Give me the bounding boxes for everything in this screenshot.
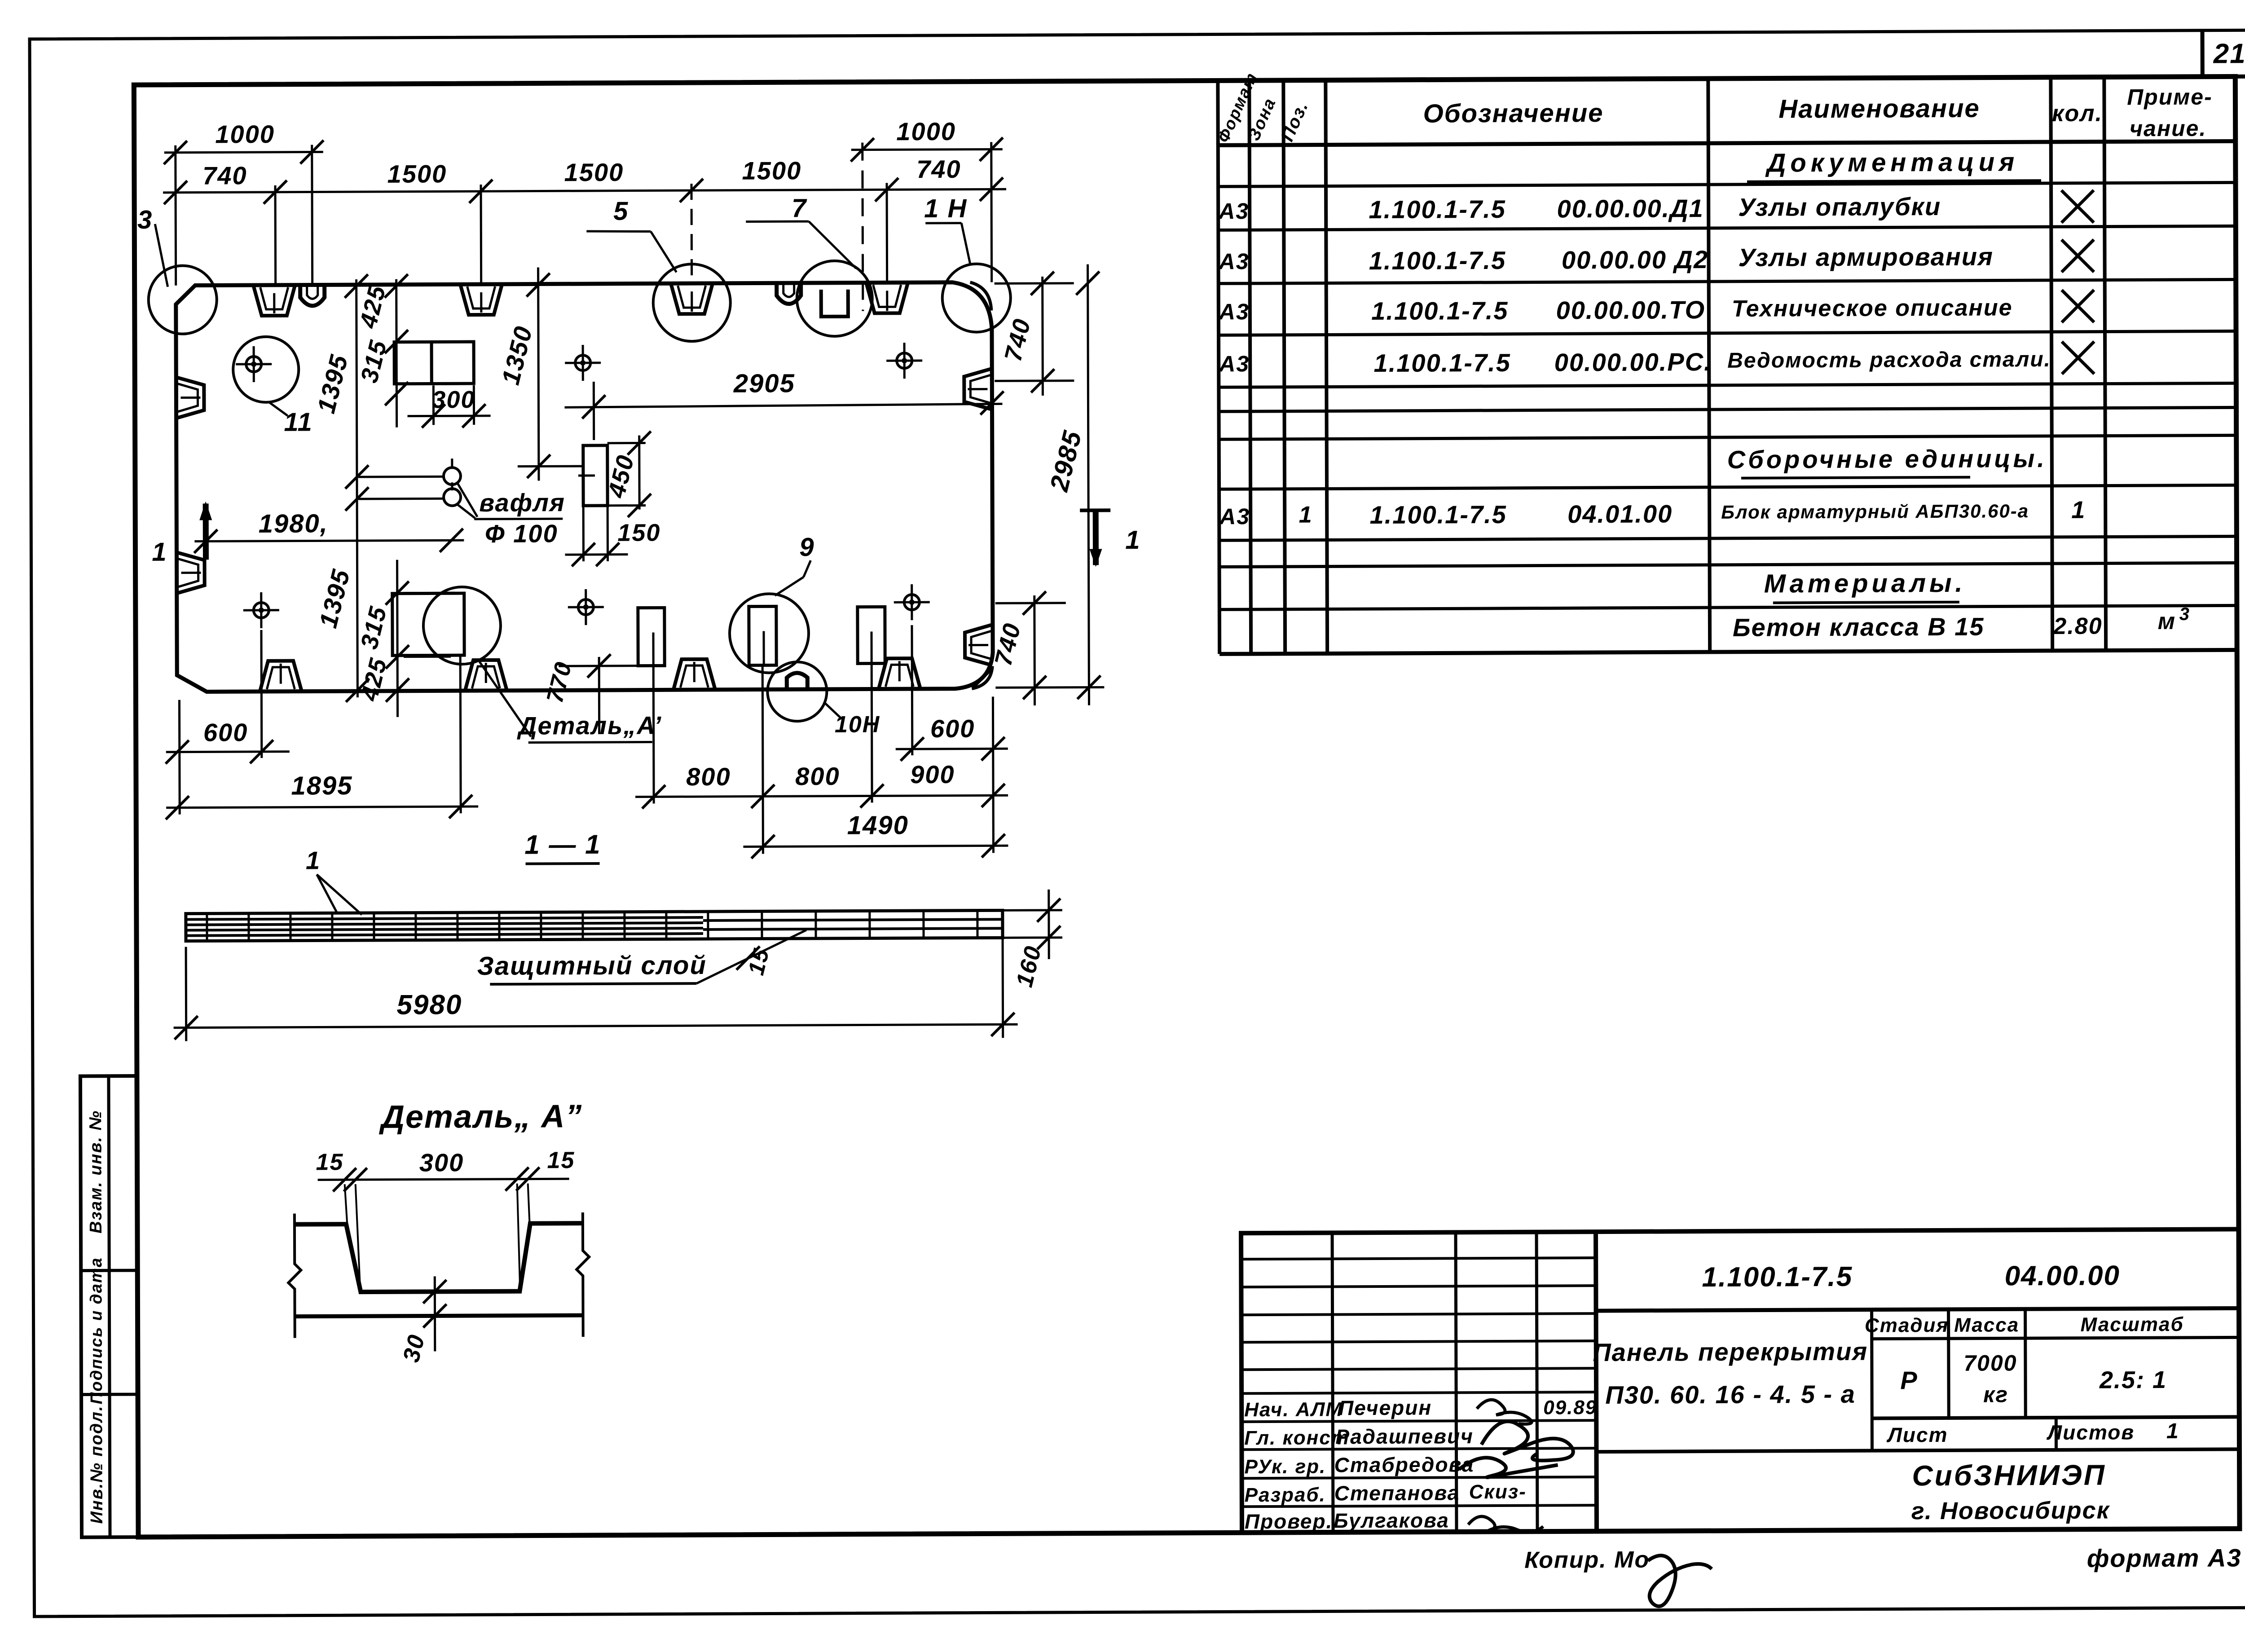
spec table row: Сборочные единицы heading: [1727, 444, 2047, 478]
svg-text:А3: А3: [1219, 504, 1250, 529]
svg-text:04.00.00: 04.00.00: [2005, 1260, 2121, 1291]
title P 7000кг 2.5:1: [1900, 1350, 2167, 1407]
label вафля Ф100: [457, 483, 565, 548]
svg-text:Лист: Лист: [1886, 1423, 1948, 1447]
svg-text:Техническое описание: Техническое описание: [1732, 295, 2013, 322]
svg-text:Стабредова: Стабредова: [1334, 1453, 1474, 1476]
svg-text:Р: Р: [1900, 1366, 1918, 1394]
svg-text:Печерин: Печерин: [1338, 1396, 1432, 1420]
svg-text:1000: 1000: [215, 120, 275, 149]
title name Панель перекрытия: [1593, 1337, 1868, 1409]
svg-text:1: 1: [152, 537, 167, 567]
svg-text:15: 15: [316, 1149, 344, 1175]
svg-text:Разраб.: Разраб.: [1245, 1484, 1326, 1506]
section callout 1: [306, 846, 362, 915]
svg-text:1.100.1-7.5: 1.100.1-7.5: [1371, 296, 1509, 325]
left vertical dim chain 1395/1395: [311, 274, 445, 702]
left edge sockets: [177, 377, 204, 593]
svg-text:Защитный слой: Защитный слой: [477, 951, 706, 981]
svg-text:Радашпевич: Радашпевич: [1335, 1424, 1474, 1448]
dimension 1980: [194, 508, 464, 553]
svg-text:А3: А3: [1218, 249, 1249, 274]
spec table row: Техническое описание: [1218, 290, 2094, 326]
label Деталь А plan: [517, 711, 662, 742]
svg-text:1895: 1895: [291, 771, 352, 801]
callout circle 7: [746, 194, 872, 337]
dimension 150: [565, 505, 660, 566]
svg-text:Стадия: Стадия: [1865, 1314, 1949, 1337]
svg-text:800: 800: [686, 762, 731, 791]
section title 1-1: [524, 829, 601, 864]
section marker 1 right: [1080, 509, 1141, 567]
bottom dims 800 800 900: [635, 664, 1008, 854]
panel outline plan: [176, 282, 993, 692]
svg-text:Блок арматурный АБП30.60-а: Блок арматурный АБП30.60-а: [1721, 500, 2029, 523]
dimension 160: [1003, 890, 1063, 990]
svg-text:Скиз-: Скиз-: [1469, 1481, 1527, 1503]
svg-text:Взам. инв. №: Взам. инв. №: [86, 1110, 106, 1233]
top edge bracket in circle 7: [821, 290, 848, 317]
spec table row: Ведомость расхода стали: [1218, 342, 2094, 378]
label Взам. инв. №: [86, 1110, 106, 1233]
svg-text:Масштаб: Масштаб: [2081, 1313, 2184, 1336]
svg-text:04.01.00: 04.01.00: [1567, 499, 1673, 528]
svg-text:600: 600: [203, 718, 248, 746]
staff row Провер. Булгакова: [1245, 1508, 1543, 1533]
spec table row: Узлы армирования: [1218, 240, 2094, 276]
label Подпись и дата: [87, 1257, 106, 1404]
title block grid: [1241, 1229, 2240, 1533]
title СибЗНИИЭП: [1911, 1459, 2110, 1525]
svg-text:1: 1: [1125, 525, 1140, 555]
detail A dims 15 300 15: [316, 1147, 575, 1292]
svg-text:00.00.00 Д2: 00.00.00 Д2: [1562, 245, 1708, 274]
svg-text:Документация: Документация: [1765, 147, 2019, 177]
svg-text:Обозначение: Обозначение: [1423, 98, 1603, 128]
svg-text:1.100.1-7.5: 1.100.1-7.5: [1369, 500, 1507, 529]
top edge socket 2: [461, 285, 502, 315]
svg-text:740: 740: [202, 161, 247, 189]
dimension row 740/1500/1500/1500/740: [163, 154, 1007, 286]
bottom dim 600 right: [895, 625, 1008, 761]
svg-text:00.00.00.Д1: 00.00.00.Д1: [1557, 194, 1704, 223]
dimension 770: [541, 654, 638, 735]
svg-text:Наименование: Наименование: [1778, 94, 1980, 124]
svg-text:740: 740: [916, 155, 961, 183]
label Инв.№ подл.: [87, 1405, 106, 1524]
svg-text:5: 5: [613, 197, 629, 226]
svg-text:1.100.1-7.5: 1.100.1-7.5: [1373, 348, 1511, 377]
dimension 1000 top-right: [851, 117, 1004, 311]
top edge loop 2: [777, 284, 801, 304]
svg-text:Инв.№ подл.: Инв.№ подл.: [87, 1405, 106, 1524]
top edge socket 3 in circle 5: [671, 284, 713, 314]
svg-text:9: 9: [799, 533, 814, 562]
note копир: [1524, 1546, 1712, 1607]
lifting point marks top row: [236, 343, 922, 382]
svg-text:1.100.1-7.5: 1.100.1-7.5: [1369, 246, 1506, 275]
svg-text:кг: кг: [1983, 1382, 2008, 1407]
formwork rect 300 detail: [394, 342, 474, 384]
title Стадия Масса Масштаб: [1865, 1313, 2184, 1337]
callout circle 11: [233, 336, 313, 437]
detail A dim 30: [398, 1276, 447, 1365]
svg-text:Масса: Масса: [1954, 1314, 2019, 1336]
svg-text:кол.: кол.: [2052, 101, 2103, 127]
right edge sockets: [964, 369, 992, 665]
svg-text:3: 3: [137, 205, 153, 234]
svg-text:Бетон класса В 15: Бетон класса В 15: [1733, 612, 1985, 642]
callout circle 5: [586, 196, 731, 342]
label Защитный слой: [477, 930, 806, 984]
svg-text:Булгакова: Булгакова: [1334, 1508, 1449, 1532]
svg-text:800: 800: [795, 762, 840, 790]
svg-text:Приме-: Приме-: [2127, 84, 2213, 110]
title Лист Листов: [1886, 1419, 2179, 1447]
svg-text:11: 11: [284, 407, 313, 436]
dimension 450: [603, 431, 651, 517]
svg-text:300: 300: [419, 1148, 464, 1176]
svg-text:10Н: 10Н: [835, 711, 880, 737]
top edge socket 1: [254, 286, 295, 316]
section bar mesh: [186, 910, 1003, 941]
right dim 740 top: [995, 272, 1074, 396]
svg-text:15: 15: [547, 1147, 575, 1173]
section marker 1 left: [152, 501, 216, 567]
svg-text:5980: 5980: [396, 989, 462, 1021]
svg-text:3: 3: [2179, 604, 2190, 624]
left margin strip boxes: [80, 1076, 138, 1537]
lifting point marks bottom row: [243, 584, 930, 628]
detail A profile: [288, 1212, 590, 1338]
svg-text:А3: А3: [1218, 351, 1250, 376]
svg-text:2.80: 2.80: [2053, 613, 2102, 639]
spec table row: Узлы опалубки: [1218, 190, 2094, 226]
svg-text:Провер.: Провер.: [1245, 1509, 1333, 1533]
dim chain 315/425 lower: [355, 559, 455, 717]
svg-text:А3: А3: [1218, 198, 1249, 224]
staff row Гл.конст Радашпевич: [1244, 1421, 1573, 1462]
svg-text:Подпись и дата: Подпись и дата: [87, 1257, 106, 1404]
spec table headers: [1214, 66, 2213, 145]
svg-text:Копир. Мо: Копир. Мо: [1524, 1547, 1650, 1573]
loop in circle 10Н: [787, 673, 807, 689]
svg-text:00.00.00.РС.: 00.00.00.РС.: [1554, 348, 1712, 376]
svg-text:РУк. гр.: РУк. гр.: [1244, 1455, 1326, 1478]
svg-text:СибЗНИИЭП: СибЗНИИЭП: [1912, 1459, 2106, 1492]
svg-text:Деталь„А’: Деталь„А’: [517, 711, 662, 740]
svg-text:2905: 2905: [733, 369, 795, 398]
svg-text:А3: А3: [1218, 299, 1250, 324]
svg-text:21: 21: [2213, 38, 2245, 69]
svg-text:Панель перекрытия: Панель перекрытия: [1593, 1337, 1868, 1366]
svg-text:Сборочные единицы.: Сборочные единицы.: [1727, 444, 2047, 474]
svg-text:Гл. конст: Гл. конст: [1244, 1427, 1350, 1449]
svg-text:600: 600: [930, 714, 975, 743]
svg-text:7000: 7000: [1963, 1350, 2017, 1375]
svg-text:09.89: 09.89: [1543, 1396, 1597, 1419]
svg-text:Узлы армирования: Узлы армирования: [1738, 242, 1994, 272]
dim chain 425/315 upper: [354, 274, 408, 427]
waffle circles Ф100: [444, 458, 461, 506]
callout circle 1Н: [924, 194, 1011, 332]
bottom dim 1490: [743, 810, 1008, 858]
svg-text:900: 900: [910, 760, 955, 789]
dimension 2905: [564, 368, 1004, 440]
sheet number box 21: [2202, 30, 2245, 77]
svg-text:1500: 1500: [387, 159, 447, 188]
right dim 740 bottom: [990, 591, 1105, 705]
svg-text:Листов: Листов: [2047, 1420, 2135, 1444]
svg-text:1.100.1-7.5: 1.100.1-7.5: [1702, 1261, 1853, 1293]
svg-text:00.00.00.ТО: 00.00.00.ТО: [1556, 295, 1705, 324]
dimension 300: [407, 385, 490, 428]
svg-text:1: 1: [1299, 502, 1313, 528]
svg-text:1: 1: [2166, 1419, 2179, 1443]
svg-text:1980,: 1980,: [259, 509, 328, 538]
spec table row: Материалы heading: [1764, 568, 1966, 603]
svg-text:П30. 60. 16 - 4. 5 - а: П30. 60. 16 - 4. 5 - а: [1605, 1380, 1856, 1409]
staff row Разраб. Степанова: [1245, 1481, 1527, 1507]
bottom dim 1895: [165, 656, 478, 819]
svg-text:1: 1: [2071, 497, 2086, 524]
svg-text:7: 7: [792, 194, 807, 223]
dimension 1350: [496, 267, 584, 481]
spec table row: Бетон класса В15: [1733, 604, 2190, 642]
svg-text:2.5: 1: 2.5: 1: [2099, 1366, 2167, 1394]
svg-text:г. Новосибирск: г. Новосибирск: [1911, 1497, 2110, 1525]
svg-text:формат А3: формат А3: [2087, 1543, 2242, 1572]
svg-text:Ф 100: Ф 100: [485, 519, 558, 548]
svg-text:Степанова: Степанова: [1334, 1481, 1460, 1505]
top edge socket 4: [867, 283, 908, 313]
svg-text:150: 150: [617, 519, 660, 546]
svg-text:вафля: вафля: [479, 488, 565, 517]
svg-text:Материалы.: Материалы.: [1764, 568, 1966, 599]
note формат А3: [2087, 1543, 2242, 1572]
svg-text:Нач. АЛМ: Нач. АЛМ: [1244, 1398, 1343, 1421]
top edge loop 1: [300, 286, 325, 306]
void rects bottom row: [638, 606, 885, 665]
svg-text:чание.: чание.: [2130, 116, 2207, 141]
svg-text:1490: 1490: [847, 811, 909, 840]
staff row Нач.АЛМ Печерин 09.89: [1244, 1395, 1597, 1425]
svg-text:1500: 1500: [742, 156, 802, 185]
svg-text:Деталь„ А”: Деталь„ А”: [379, 1098, 583, 1135]
bottom edge sockets: [260, 658, 920, 691]
callout circle 9: [729, 533, 815, 673]
callout circle 10Н: [767, 661, 880, 738]
dimension 1000 top-left: [164, 119, 324, 286]
svg-text:Ведомость расхода стали.: Ведомость расхода стали.: [1727, 348, 2051, 373]
svg-text:м: м: [2158, 608, 2176, 634]
svg-text:1500: 1500: [564, 158, 624, 187]
staff row Рук.гр. Стабредова: [1244, 1452, 1558, 1478]
svg-text:1: 1: [306, 846, 321, 874]
dimension 5980: [173, 938, 1018, 1041]
svg-text:1 — 1: 1 — 1: [524, 829, 601, 860]
svg-text:1000: 1000: [896, 117, 956, 146]
spec table row: Документация heading: [1747, 147, 2041, 182]
callout circle 3: [137, 205, 217, 334]
title doc number 1.100.1-7.5 04.00.00: [1702, 1260, 2120, 1293]
right dim 2985: [1043, 264, 1100, 705]
svg-text:Узлы опалубки: Узлы опалубки: [1738, 192, 1941, 221]
detail A circle: [392, 587, 531, 737]
bottom dim 600 left: [165, 630, 290, 815]
svg-text:300: 300: [432, 386, 475, 413]
spec table row: Блок арматурный: [1219, 497, 2086, 530]
detail A title: [379, 1098, 583, 1135]
svg-text:1.100.1-7.5: 1.100.1-7.5: [1369, 195, 1506, 224]
void rect upper: [578, 445, 607, 506]
svg-text:1 Н: 1 Н: [924, 194, 967, 223]
spec table grid: [1218, 76, 2237, 654]
